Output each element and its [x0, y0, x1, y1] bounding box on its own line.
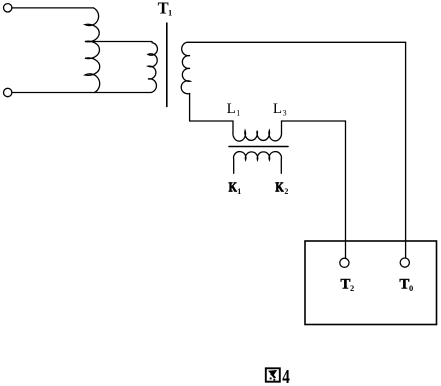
label K1 [229, 179, 242, 196]
svg-text:1: 1 [168, 7, 172, 17]
inductor core bar [229, 146, 288, 148]
svg-text:3: 3 [283, 109, 287, 118]
svg-text:4: 4 [282, 365, 290, 386]
wire primary mid-tap to winding W2 top [86, 41, 153, 43]
label T2 [340, 277, 354, 294]
svg-text:T: T [340, 277, 350, 293]
svg-text:L: L [227, 101, 236, 117]
svg-text:K: K [275, 179, 284, 195]
inductor K1-K2 bottom winding [234, 152, 282, 174]
detector box [305, 241, 437, 325]
wire secondary bottom down [189, 94, 191, 122]
label K2 [275, 179, 288, 196]
wire inductor right end up to T2 line [282, 121, 346, 133]
svg-text:T: T [158, 0, 169, 18]
inductor L1-L3 top winding [233, 131, 282, 141]
terminal circle bottom-left [4, 88, 12, 96]
wire to inductor L1 [190, 121, 233, 133]
label T1 [158, 0, 173, 18]
terminal T0 circle [400, 258, 409, 267]
wire right vertical down to terminal T0 [405, 42, 407, 257]
svg-text:L: L [273, 101, 282, 117]
svg-text:T: T [399, 277, 409, 293]
svg-text:0: 0 [409, 283, 413, 293]
svg-text:2: 2 [284, 187, 288, 196]
wire bottom-left terminal to winding W2 bottom [12, 92, 151, 94]
caption figure character tu [266, 368, 280, 381]
terminal circle top-left [4, 4, 12, 12]
svg-text:1: 1 [237, 187, 241, 196]
transformer T1 core [166, 23, 168, 107]
label L1 [227, 101, 241, 118]
transformer winding W2 (left of core) [148, 43, 157, 93]
svg-text:2: 2 [350, 283, 354, 293]
wire down to terminal T2 [345, 121, 347, 258]
transformer primary winding coil [85, 8, 100, 93]
wire top-left terminal to primary coil [12, 7, 94, 9]
label L3 [273, 101, 287, 118]
terminal T2 circle [340, 258, 349, 267]
caption figure number 4 [282, 365, 290, 386]
wire secondary top to right vertical [187, 41, 406, 43]
label T0 [399, 277, 413, 294]
transformer secondary winding coil [181, 42, 190, 93]
svg-text:K: K [229, 179, 238, 195]
svg-text:1: 1 [236, 109, 240, 118]
